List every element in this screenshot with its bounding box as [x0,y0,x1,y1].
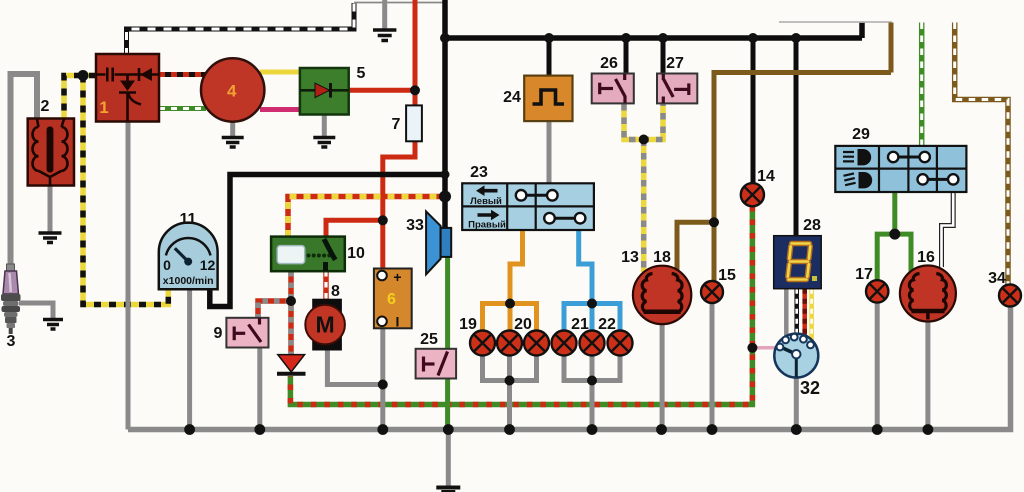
wire gray sensor 32 to bus [794,377,799,430]
svg-text:1: 1 [99,98,108,117]
tachometer 11 [159,223,218,290]
tail lamp 18 [633,266,691,324]
svg-text:7: 7 [392,116,401,133]
lamp 14 [741,183,764,206]
svg-text:21: 21 [571,316,589,333]
lamp 34 [999,285,1021,307]
switch 27 [657,74,697,104]
gear indicator 28 [774,236,822,289]
wire high-voltage lead coil2 to plug3 (gray) [11,74,38,266]
svg-text:19: 19 [459,316,477,333]
svg-text:24: 24 [503,89,521,106]
wire yellow/gray dashed: switches 26,27 to tail lamp 18 (net 13) [624,104,663,272]
light switch 29 [835,146,966,192]
wire gray lamp 17 to bus [875,303,880,430]
junction blue [587,299,597,309]
junction black bus at 26 [621,33,631,43]
junction black bus at 27 [658,33,668,43]
lamp 15 [701,281,723,303]
junction node A (83,75.5) [78,70,89,81]
wire gray breaker 24 to switch 23 [547,121,552,184]
svg-text:3: 3 [7,333,16,350]
junction gray lamps 19,20 [505,376,515,386]
CDI unit 1 [96,54,159,122]
wire yellow generator 4 to rectifier 5 [260,70,300,75]
junction bus dots [184,424,933,435]
wire black bus drop to indicator 28 [794,38,799,237]
wire gray box1 bottom to chassis bus [126,120,131,430]
horn 33 [426,211,451,274]
wire green/white dashed box1 to generator 4 [159,106,206,111]
junction gray lamps 21,22 [587,376,597,386]
svg-text:23: 23 [470,164,488,181]
svg-text:29: 29 [852,126,870,143]
wire gray battery 6 minus to bus [380,328,385,429]
wire black bus horizontal at top [445,22,862,38]
svg-text:25: 25 [420,331,438,348]
ground below spark plug 3 [43,320,63,330]
junction at horn node (445,196.5) [439,191,451,203]
svg-text:8: 8 [331,283,340,300]
svg-text:16: 16 [917,249,935,266]
junction green/red at pink tap [747,343,757,353]
wire gray motor 8 to battery minus node [327,351,383,385]
svg-text:x1000/min: x1000/min [163,275,214,287]
wire black/white dashed: box1 top to top edge [127,3,355,56]
wire gray generator 4 to ground [230,122,235,138]
junction red/gray (291,301) [286,296,296,306]
ground below generator 4 [222,138,244,148]
rectifier 5 [300,68,349,115]
svg-text:18: 18 [653,249,671,266]
wire gray from top edge to ground (near fuse) [382,0,387,30]
svg-text:+: + [393,269,401,285]
wire bundle 28-32: red dashed [802,289,807,337]
junction red at battery branch (382.8,220.3) [378,215,388,225]
lamps 21,22 group [552,331,633,356]
wire orange: switch 23 to lamps 19,20 [483,230,537,331]
wire thin link at top [354,2,444,4]
svg-text:14: 14 [757,168,775,185]
ground bottom center [436,488,460,492]
junction black bus at 24 [544,33,554,43]
svg-text:4: 4 [227,82,237,101]
junction green at 29 [889,229,900,240]
battery 6 [374,269,412,330]
wire box2 bottom to ground (gray) [48,186,53,233]
wire green horn 33 through brake switch 25 to bus [445,257,450,430]
wire white: switch 29 to headlamp 16 [942,192,954,267]
wire gray bus stub to bottom ground [446,430,451,488]
wire brown/white dashed to lamp 34 [955,23,1008,286]
wire green/red dashed: lamp 14 through bus to diode VD [290,206,752,405]
svg-text:13: 13 [621,249,639,266]
wire red/yellow dashed: relay 10 to main vertical [288,197,444,238]
wire spark plug 3 side to ground (gray) [19,303,53,318]
wire gray tachometer 11 to bus [187,289,192,430]
fuse 7 [406,105,422,141]
ground below rectifier 5 [313,138,335,148]
wire pink to sensor 32 [752,346,777,350]
wire red/white dashed: relay 10 to motor 8 [323,271,329,299]
wire gray rectifier 5 to ground [322,115,327,138]
svg-text:22: 22 [598,316,616,333]
svg-text:20: 20 [514,316,532,333]
wire gray lamp 15 to bus [710,303,715,430]
wire gray headlamp 16 to bus [925,322,930,430]
junction red at fuse (415,90.3) [410,85,420,95]
wire bundle 28-32: yellow/white dashed [809,289,814,340]
wire black/red dashed box1 to generator 4 [159,72,206,77]
wire thin faint stub top right [779,21,892,23]
svg-text:10: 10 [347,245,365,262]
lamp 17 [866,280,888,302]
wire red/gray dashed: relay 10 to switch 9 and diode VD [258,271,291,355]
headlamp 16 [900,266,956,322]
wire black bus drop to breaker 24 [547,38,552,76]
wire black bus drop to lamp 14 [751,38,756,184]
starter relay 10 [271,237,345,272]
brake switch 25 [416,349,457,379]
svg-text:26: 26 [600,55,618,72]
wire gray tail lamp 18 to bus [660,324,665,430]
svg-text:6: 6 [387,291,396,308]
motor 8 [305,299,345,351]
svg-text:M: M [316,312,335,338]
spark plug 3 [1,264,21,334]
svg-text:27: 27 [666,55,684,72]
switch 26 [592,74,634,104]
svg-text:Левый: Левый [470,196,502,207]
junction black bus at 28 [791,33,801,43]
diode VD (near battery) [277,355,306,374]
svg-text:17: 17 [855,266,873,283]
svg-text:33: 33 [406,217,424,234]
junction orange [505,299,515,309]
svg-text:I: I [396,314,400,330]
svg-text:5: 5 [357,65,366,82]
svg-text:9: 9 [214,325,223,342]
wire main black vertical from top edge to horn 33 [442,0,448,229]
wire gray return lamps 19,20 to bus [483,356,537,430]
junction black bus at 14 [748,33,758,43]
junction gray battery/motor node [378,380,388,390]
svg-text:0: 0 [163,257,171,273]
svg-text:32: 32 [800,378,820,398]
ground top center [373,30,396,41]
wire gray switch 9 to bus [257,348,262,430]
generator 4 [201,58,264,121]
wire red net: rectifier 5, fuse 7, battery 6, relay 10 [326,0,415,269]
wire black bus drop to switch 27 [661,38,666,75]
junction black bus at main vertical [440,33,450,43]
svg-text:Правый: Правый [468,220,506,231]
svg-text:12: 12 [200,257,216,273]
junction yellow net 13 [639,135,649,145]
svg-text:34: 34 [988,270,1006,287]
wire yellow/black net: node A to box1, box2, tachometer 11 [64,76,168,305]
wire bundle indicator 28 to sensor 32: gray [784,289,789,341]
turn switch 23 [462,183,594,230]
gear sensor 32 [774,334,818,378]
junction brown (714,222.3) [709,217,719,227]
turn relay 24 [524,76,572,122]
wire magenta generator 4 to rectifier 5 [260,107,300,112]
wire black from main vertical to tachometer 11 [210,175,445,307]
wire green: switch 29 to lamp 17 and headlamp 16 [877,192,911,280]
wire black bus drop to switch 26 [624,38,629,75]
lamps 19,20 group [470,331,549,356]
wire brown net: top bus area to lamps 18 and 15 [677,23,891,282]
wire green/white dashed to light switch 29 [919,23,925,147]
wire blue: switch 23 to lamps 21,22 [564,230,620,331]
wire bundle 28-32: black/white dashed [794,289,799,334]
ground below ignition coil 2 [39,233,62,243]
svg-text:28: 28 [803,217,821,234]
svg-text:2: 2 [41,98,50,115]
wire gray return lamps 21,22 to bus [564,356,620,430]
ignition coil 2 [28,119,74,187]
wire gray chassis bus bottom [128,307,1011,430]
svg-text:11: 11 [180,211,197,228]
svg-text:15: 15 [718,267,736,284]
switch 9 [226,318,268,348]
junction black tee (445,174.5) [441,170,450,179]
